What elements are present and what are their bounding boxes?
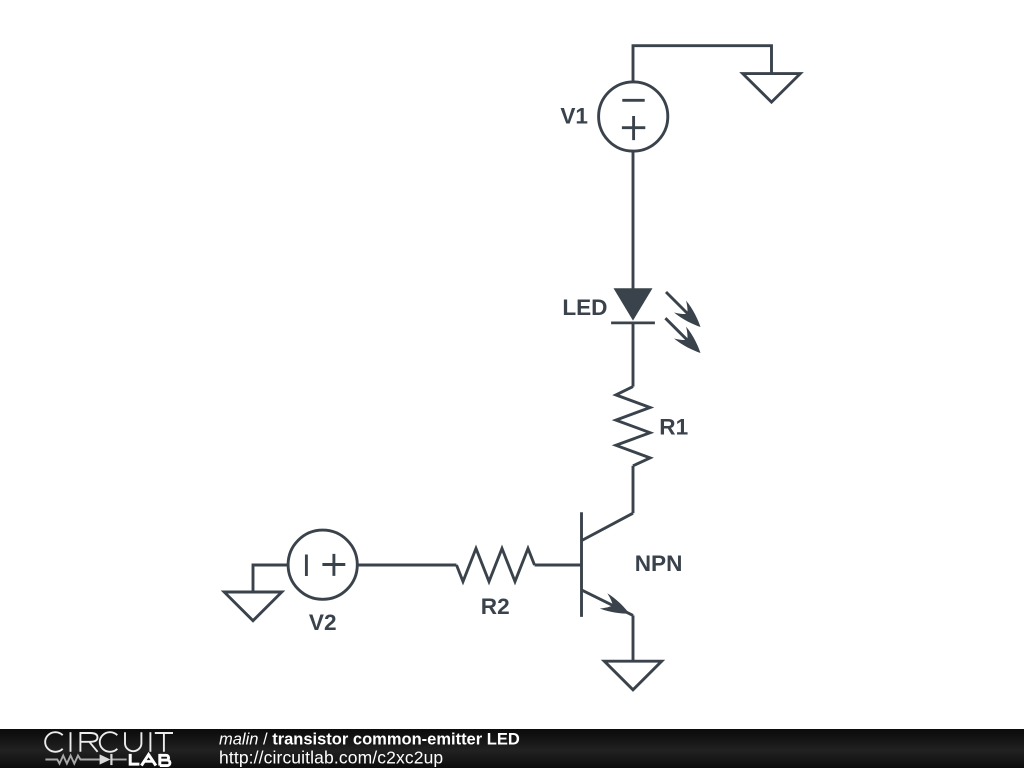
wire R1 to collector bbox=[632, 466, 635, 513]
CircuitLab logo wordmark CIRCUIT bbox=[45, 732, 173, 752]
svg-text:NPN: NPN bbox=[635, 551, 683, 576]
svg-text:R2: R2 bbox=[481, 594, 510, 619]
wire V1 top to ground bbox=[633, 46, 772, 82]
transistor Q1 NPN bbox=[582, 512, 634, 621]
logo diode bbox=[100, 754, 113, 765]
logo LAB letters bbox=[130, 754, 170, 766]
wire V2 to ground bbox=[253, 565, 287, 592]
wire emitter to ground bbox=[632, 615, 635, 661]
svg-text:malin / transistor common-emit: malin / transistor common-emitter LED bbox=[219, 730, 520, 748]
svg-text:V1: V1 bbox=[560, 103, 588, 128]
LED D1 arrows bbox=[665, 292, 706, 359]
resistor R2 bbox=[457, 549, 535, 582]
logo resistor-diode glyph bbox=[45, 756, 126, 764]
footer bar bbox=[0, 729, 1024, 768]
wire LED to R1 bbox=[632, 323, 635, 387]
wire V1 to LED bbox=[632, 151, 635, 289]
ground GND top-right bbox=[743, 74, 801, 103]
ground GND left bbox=[224, 592, 282, 621]
svg-text:R1: R1 bbox=[659, 414, 688, 439]
svg-text:V2: V2 bbox=[309, 610, 337, 635]
LED D1 body bbox=[611, 288, 655, 324]
svg-text:LED: LED bbox=[562, 295, 607, 320]
wire base to R2 bbox=[535, 564, 582, 567]
voltage source V2 bbox=[288, 530, 357, 599]
ground GND bottom bbox=[604, 661, 661, 690]
wire V2 to R2 bbox=[358, 564, 457, 567]
svg-text:http://circuitlab.com/c2xc2up: http://circuitlab.com/c2xc2up bbox=[219, 747, 443, 767]
resistor R1 bbox=[616, 387, 650, 466]
voltage source V1 bbox=[599, 82, 668, 151]
